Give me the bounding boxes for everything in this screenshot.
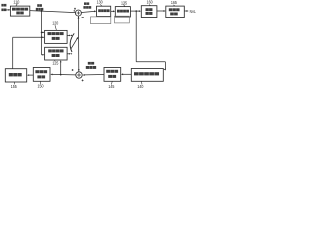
wire: prediction bus from subtractor down to reconstruction adder [78,16,80,72]
op: switch lever with arrowhead [71,37,79,50]
label: reference numeral 165 with leader [171,0,177,6]
wire: input arrow into picture-partition module [6,9,10,11]
block 145 inverse transform module (逆变换模块) [104,68,121,82]
block 120 inter prediction module (帧间预测模块) [45,30,68,43]
node: label 残差画面块 (residual block) [83,2,91,8]
wire: inter prediction output to switch contact [67,35,72,37]
node: junction at inter-prediction input [41,32,43,34]
wire: rearrangement to entropy coding [157,10,166,12]
wire: partition output to subtractor (slight scan slope) [30,11,76,13]
node: junction where current-block line branches down [41,10,43,12]
wire: branch down feeding prediction modules [41,11,43,55]
block 125 intra prediction module (帧内预测模块) [45,47,68,60]
label: reference numeral 110 with leader [13,0,19,6]
block 135 quantization module (量化模块) [115,7,130,17]
label: reference numeral 160 with leader [147,0,153,6]
node: label 复原画面块 (reconstructed block) [86,62,96,69]
block 130 transform module (变换模块) [97,6,111,16]
wire: inverse transform into reconstruction adder [83,74,105,76]
wire: filter output into memory [27,74,33,76]
block 150 filter module (滤波器模块) [33,68,50,82]
svg-text:110: 110 [13,0,19,5]
wire: intra prediction output to switch contact [67,53,72,55]
label: reference numeral 155 with leader below [11,82,17,89]
node: junction feeding inverse-quantization path [135,10,137,12]
node: junction on reconstructed-block wire [60,74,62,76]
label: minus sign at subtractor prediction input [82,17,84,19]
block 165 entropy encoding module (熵编码模块) [166,6,185,17]
label: reference numeral 130 with leader [97,0,103,6]
label: reference numeral 145 with leader below [108,81,114,89]
wire: dequantization to inverse transform [121,73,131,75]
wire: arrow into intra prediction input [42,54,45,56]
svg-text:120: 120 [52,20,58,25]
svg-text:150: 150 [38,83,44,88]
block 110 picture partition module (画面划分模块) [10,6,29,16]
label: reference numeral 140 with leader below [137,81,143,88]
node: faint ghost rectangle under transform module (scan bleed) [91,17,111,24]
wire: quantization to rearrangement with junction to dequantizer [130,10,141,12]
wire: adder output to filter, with junction up to intra prediction [50,74,76,76]
svg-text:160: 160 [147,0,153,5]
svg-text:135: 135 [121,1,127,6]
label: reference numeral 120 with leader [52,20,58,30]
label: reference numeral 135 with leader [121,1,127,7]
node: crossing dot with memory feedback line [41,37,42,38]
op: subtractor adder circle [75,10,81,16]
label: plus sign at subtractor input [74,8,76,10]
node: faint ghost rectangle under quantization module (scan bleed) [115,16,130,23]
wire: memory feedback up to inter prediction reference input [13,36,45,68]
svg-text:140: 140 [137,84,143,89]
op: reconstruction adder circle [76,72,82,78]
wire: entropy coder output to NAL [184,10,188,12]
label: reference numeral 150 with leader below [38,81,44,88]
svg-text:165: 165 [171,0,177,5]
op: mode selector switch arc [70,33,74,52]
wire: transform to quantization [111,10,116,12]
svg-text:155: 155 [11,84,17,89]
svg-text:125: 125 [52,60,58,65]
svg-text:NAL: NAL [190,9,197,14]
node: input label 当前画面 [1,4,6,11]
wire: arrow into inter prediction top input [42,32,45,34]
wire: reconstructed samples up into intra prediction module [60,60,62,74]
node: label 预测目标块 (prediction target block) [36,4,44,10]
wire: feed line down, across and into dequantization module [136,11,166,70]
node: small junction dot before subtractor [74,10,75,11]
label: plus sign at adder left input [72,69,74,71]
block 160 rearrangement module (重新排列) [141,6,157,18]
svg-text:130: 130 [97,0,103,4]
label: reference numeral 125 with leader below [52,60,58,65]
wire: subtractor to transform module [81,10,96,12]
block 140 dequantization module (逆量化模块) [131,69,163,82]
label: plus sign at adder lower input [82,79,84,81]
block 155 memory (存储器) [5,69,26,82]
svg-text:145: 145 [108,84,114,89]
